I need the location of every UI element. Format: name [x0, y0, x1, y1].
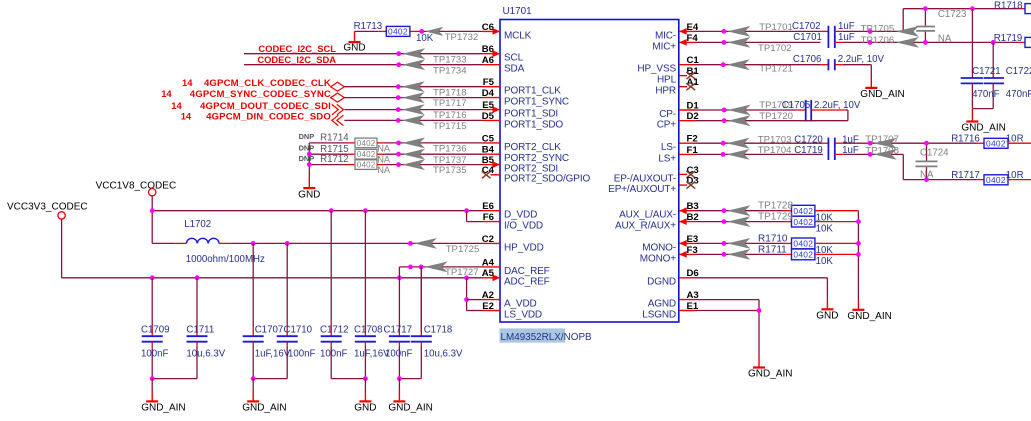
svg-text:TP1715: TP1715	[433, 121, 467, 132]
svg-text:100nF: 100nF	[320, 349, 348, 360]
svg-text:10K: 10K	[416, 33, 434, 44]
svg-text:470nF: 470nF	[972, 89, 1000, 100]
svg-text:C3: C3	[687, 165, 699, 176]
svg-text:1uF: 1uF	[842, 134, 859, 145]
svg-text:CODEC_I2C_SCL: CODEC_I2C_SCL	[258, 43, 336, 54]
svg-text:SCL: SCL	[504, 53, 524, 64]
svg-text:GND: GND	[298, 190, 320, 201]
svg-text:GND_AIN: GND_AIN	[847, 311, 891, 322]
svg-text:U1701: U1701	[503, 6, 533, 17]
svg-text:GND_AIN: GND_AIN	[961, 123, 1005, 134]
svg-text:C1710: C1710	[284, 325, 313, 336]
svg-text:GND_AIN: GND_AIN	[748, 369, 792, 380]
svg-text:LS+: LS+	[658, 153, 676, 164]
svg-text:14: 14	[161, 88, 172, 99]
svg-text:10u,6.3V: 10u,6.3V	[186, 349, 225, 360]
svg-text:470nF: 470nF	[1006, 89, 1031, 100]
svg-text:10u,6.3V: 10u,6.3V	[424, 349, 463, 360]
svg-text:R1716: R1716	[951, 133, 980, 144]
svg-text:100nF: 100nF	[385, 349, 413, 360]
svg-text:CP-: CP-	[659, 109, 676, 120]
svg-text:GND_AIN: GND_AIN	[141, 403, 185, 414]
svg-text:10K: 10K	[816, 256, 834, 267]
svg-text:SDA: SDA	[504, 64, 525, 75]
svg-text:GND: GND	[343, 43, 365, 54]
svg-text:TP1732: TP1732	[445, 32, 479, 43]
svg-text:C1718: C1718	[424, 325, 453, 336]
svg-text:10R: 10R	[1006, 133, 1024, 144]
svg-text:R1710: R1710	[758, 234, 788, 245]
svg-text:DAC_REF: DAC_REF	[504, 266, 550, 277]
svg-text:TP1705: TP1705	[861, 24, 895, 35]
svg-text:C1717: C1717	[384, 325, 413, 336]
svg-text:10K: 10K	[816, 223, 834, 234]
svg-text:MCLK: MCLK	[504, 30, 532, 41]
svg-text:4GPCM_DIN_CODEC_SDO: 4GPCM_DIN_CODEC_SDO	[206, 112, 331, 123]
svg-text:C1705: C1705	[782, 100, 811, 111]
svg-text:VCC3V3_CODEC: VCC3V3_CODEC	[7, 201, 88, 212]
svg-text:MONO-: MONO-	[642, 242, 676, 253]
svg-text:TP1717: TP1717	[433, 98, 467, 109]
svg-text:LM49352RLX/NOPB: LM49352RLX/NOPB	[501, 332, 593, 343]
svg-text:A_VDD: A_VDD	[504, 299, 537, 310]
svg-text:PORT1_CLK: PORT1_CLK	[504, 86, 561, 97]
svg-text:0402: 0402	[388, 27, 408, 37]
svg-text:AGND: AGND	[648, 299, 676, 310]
svg-text:TP1725: TP1725	[446, 244, 480, 255]
svg-text:TP1702: TP1702	[758, 43, 792, 54]
svg-text:HPR: HPR	[655, 86, 676, 97]
svg-text:0402: 0402	[793, 239, 813, 249]
svg-text:R1718: R1718	[994, 0, 1023, 11]
svg-text:R1712: R1712	[320, 154, 349, 165]
svg-text:PORT1_SDI: PORT1_SDI	[504, 109, 558, 120]
svg-text:2.2uF, 10V: 2.2uF, 10V	[838, 54, 885, 65]
svg-text:TP1706: TP1706	[861, 35, 895, 46]
svg-text:PORT2_SYNC: PORT2_SYNC	[504, 153, 569, 164]
svg-text:GND: GND	[354, 402, 376, 413]
svg-text:TP1734: TP1734	[433, 65, 467, 76]
svg-text:I/O_VDD: I/O_VDD	[504, 221, 543, 232]
svg-text:TP1727: TP1727	[445, 267, 479, 278]
svg-text:TP1716: TP1716	[433, 110, 467, 121]
svg-text:0402: 0402	[793, 217, 813, 227]
svg-text:GND_AIN: GND_AIN	[388, 403, 432, 414]
svg-text:2.2uF, 10V: 2.2uF, 10V	[814, 100, 861, 111]
svg-text:C1702: C1702	[792, 21, 821, 32]
svg-text:D_VDD: D_VDD	[504, 210, 537, 221]
svg-text:C1708: C1708	[354, 325, 383, 336]
svg-text:GND_AIN: GND_AIN	[860, 89, 904, 100]
svg-text:R1719: R1719	[994, 33, 1023, 44]
svg-text:PORT1_SYNC: PORT1_SYNC	[504, 97, 569, 108]
svg-text:NA: NA	[377, 155, 391, 165]
svg-text:TP1733: TP1733	[433, 54, 467, 65]
svg-text:C1721: C1721	[972, 66, 1001, 77]
svg-text:LS_VDD: LS_VDD	[504, 309, 542, 320]
svg-text:NA: NA	[377, 143, 391, 153]
svg-text:TP1735: TP1735	[433, 165, 467, 176]
svg-text:C1724: C1724	[920, 147, 949, 158]
svg-text:DNP: DNP	[299, 154, 315, 163]
svg-text:MIC-: MIC-	[655, 30, 676, 41]
svg-text:HPL: HPL	[657, 75, 677, 86]
svg-text:EP+/AUXOUT+: EP+/AUXOUT+	[608, 184, 676, 195]
svg-text:MONO+: MONO+	[640, 253, 677, 264]
svg-text:0402: 0402	[357, 139, 376, 148]
svg-text:C1701: C1701	[793, 32, 822, 43]
svg-text:1uF: 1uF	[842, 145, 859, 156]
svg-text:GND_AIN: GND_AIN	[242, 403, 286, 414]
svg-text:R1714: R1714	[320, 133, 349, 144]
svg-text:0402: 0402	[986, 175, 1006, 185]
svg-text:EP-/AUXOUT-: EP-/AUXOUT-	[614, 173, 676, 184]
svg-text:4GPCM_DOUT_CODEC_SDI: 4GPCM_DOUT_CODEC_SDI	[200, 101, 331, 112]
svg-text:C1712: C1712	[320, 325, 349, 336]
svg-text:1uF,16V: 1uF,16V	[255, 349, 291, 360]
svg-text:AUX_L/AUX-: AUX_L/AUX-	[619, 210, 676, 221]
svg-text:LS-: LS-	[661, 142, 676, 153]
svg-text:C1707: C1707	[255, 325, 284, 336]
svg-text:14: 14	[181, 111, 192, 122]
svg-text:ADC_REF: ADC_REF	[504, 277, 550, 288]
svg-text:HP_VSS: HP_VSS	[637, 64, 676, 75]
svg-text:10R: 10R	[1006, 170, 1024, 181]
svg-text:PORT2_CLK: PORT2_CLK	[504, 142, 561, 153]
svg-text:100nF: 100nF	[288, 349, 316, 360]
svg-text:TP1736: TP1736	[433, 144, 467, 155]
svg-text:14: 14	[182, 77, 193, 88]
svg-text:TP1729: TP1729	[758, 212, 793, 223]
svg-text:4GPCM_SYNC_CODEC_SYNC: 4GPCM_SYNC_CODEC_SYNC	[190, 89, 331, 100]
svg-text:CP+: CP+	[657, 120, 677, 131]
svg-text:VCC1V8_CODEC: VCC1V8_CODEC	[96, 180, 177, 191]
svg-text:0402: 0402	[986, 139, 1006, 149]
svg-text:C1719: C1719	[794, 145, 823, 156]
svg-text:NA: NA	[938, 33, 952, 44]
svg-text:DNP: DNP	[299, 132, 315, 141]
svg-text:0402: 0402	[357, 161, 376, 170]
svg-text:TP1704: TP1704	[758, 145, 792, 156]
svg-text:B1: B1	[687, 66, 700, 77]
svg-text:A1: A1	[687, 77, 700, 88]
svg-text:4GPCM_CLK_CODEC_CLK: 4GPCM_CLK_CODEC_CLK	[204, 78, 331, 89]
svg-text:TP1720: TP1720	[759, 111, 793, 122]
svg-text:TP1728: TP1728	[758, 201, 793, 212]
svg-text:1uF: 1uF	[838, 21, 855, 32]
svg-text:C1711: C1711	[186, 325, 214, 336]
svg-text:DNP: DNP	[299, 144, 315, 153]
svg-text:C1706: C1706	[793, 54, 822, 65]
svg-text:14: 14	[171, 100, 182, 111]
svg-text:NA: NA	[377, 165, 391, 175]
svg-text:TP1721: TP1721	[759, 63, 793, 74]
svg-text:1uF: 1uF	[838, 32, 855, 43]
svg-text:TP1703: TP1703	[758, 134, 792, 145]
svg-text:C1722: C1722	[1006, 66, 1031, 77]
svg-text:MIC+: MIC+	[652, 41, 676, 52]
svg-text:GND: GND	[816, 311, 838, 322]
svg-text:C1723: C1723	[938, 9, 967, 20]
svg-text:HP_VDD: HP_VDD	[504, 242, 544, 253]
svg-text:CODEC_I2C_SDA: CODEC_I2C_SDA	[257, 54, 336, 65]
svg-text:R1713: R1713	[354, 21, 383, 32]
svg-text:0402: 0402	[793, 206, 813, 216]
svg-text:R1717: R1717	[951, 170, 980, 181]
svg-text:D3: D3	[687, 176, 699, 187]
svg-text:TP1707: TP1707	[865, 134, 899, 145]
svg-text:AUX_R/AUX+: AUX_R/AUX+	[615, 221, 676, 232]
svg-text:TP1718: TP1718	[433, 87, 467, 98]
svg-text:TP1708: TP1708	[865, 145, 899, 156]
svg-text:PORT2_SDO/GPIO: PORT2_SDO/GPIO	[504, 174, 590, 185]
svg-text:0402: 0402	[357, 150, 376, 159]
svg-text:L1702: L1702	[184, 219, 211, 230]
svg-text:100nF: 100nF	[141, 349, 169, 360]
svg-text:0402: 0402	[793, 250, 813, 260]
svg-text:C1720: C1720	[794, 134, 823, 145]
svg-text:LSGND: LSGND	[642, 309, 676, 320]
svg-text:DGND: DGND	[647, 277, 676, 288]
svg-text:TP1701: TP1701	[759, 22, 793, 33]
svg-text:R1711: R1711	[758, 245, 787, 256]
svg-text:C1709: C1709	[141, 325, 170, 336]
svg-text:PORT1_SDO: PORT1_SDO	[504, 119, 563, 130]
svg-text:R1715: R1715	[320, 144, 349, 155]
